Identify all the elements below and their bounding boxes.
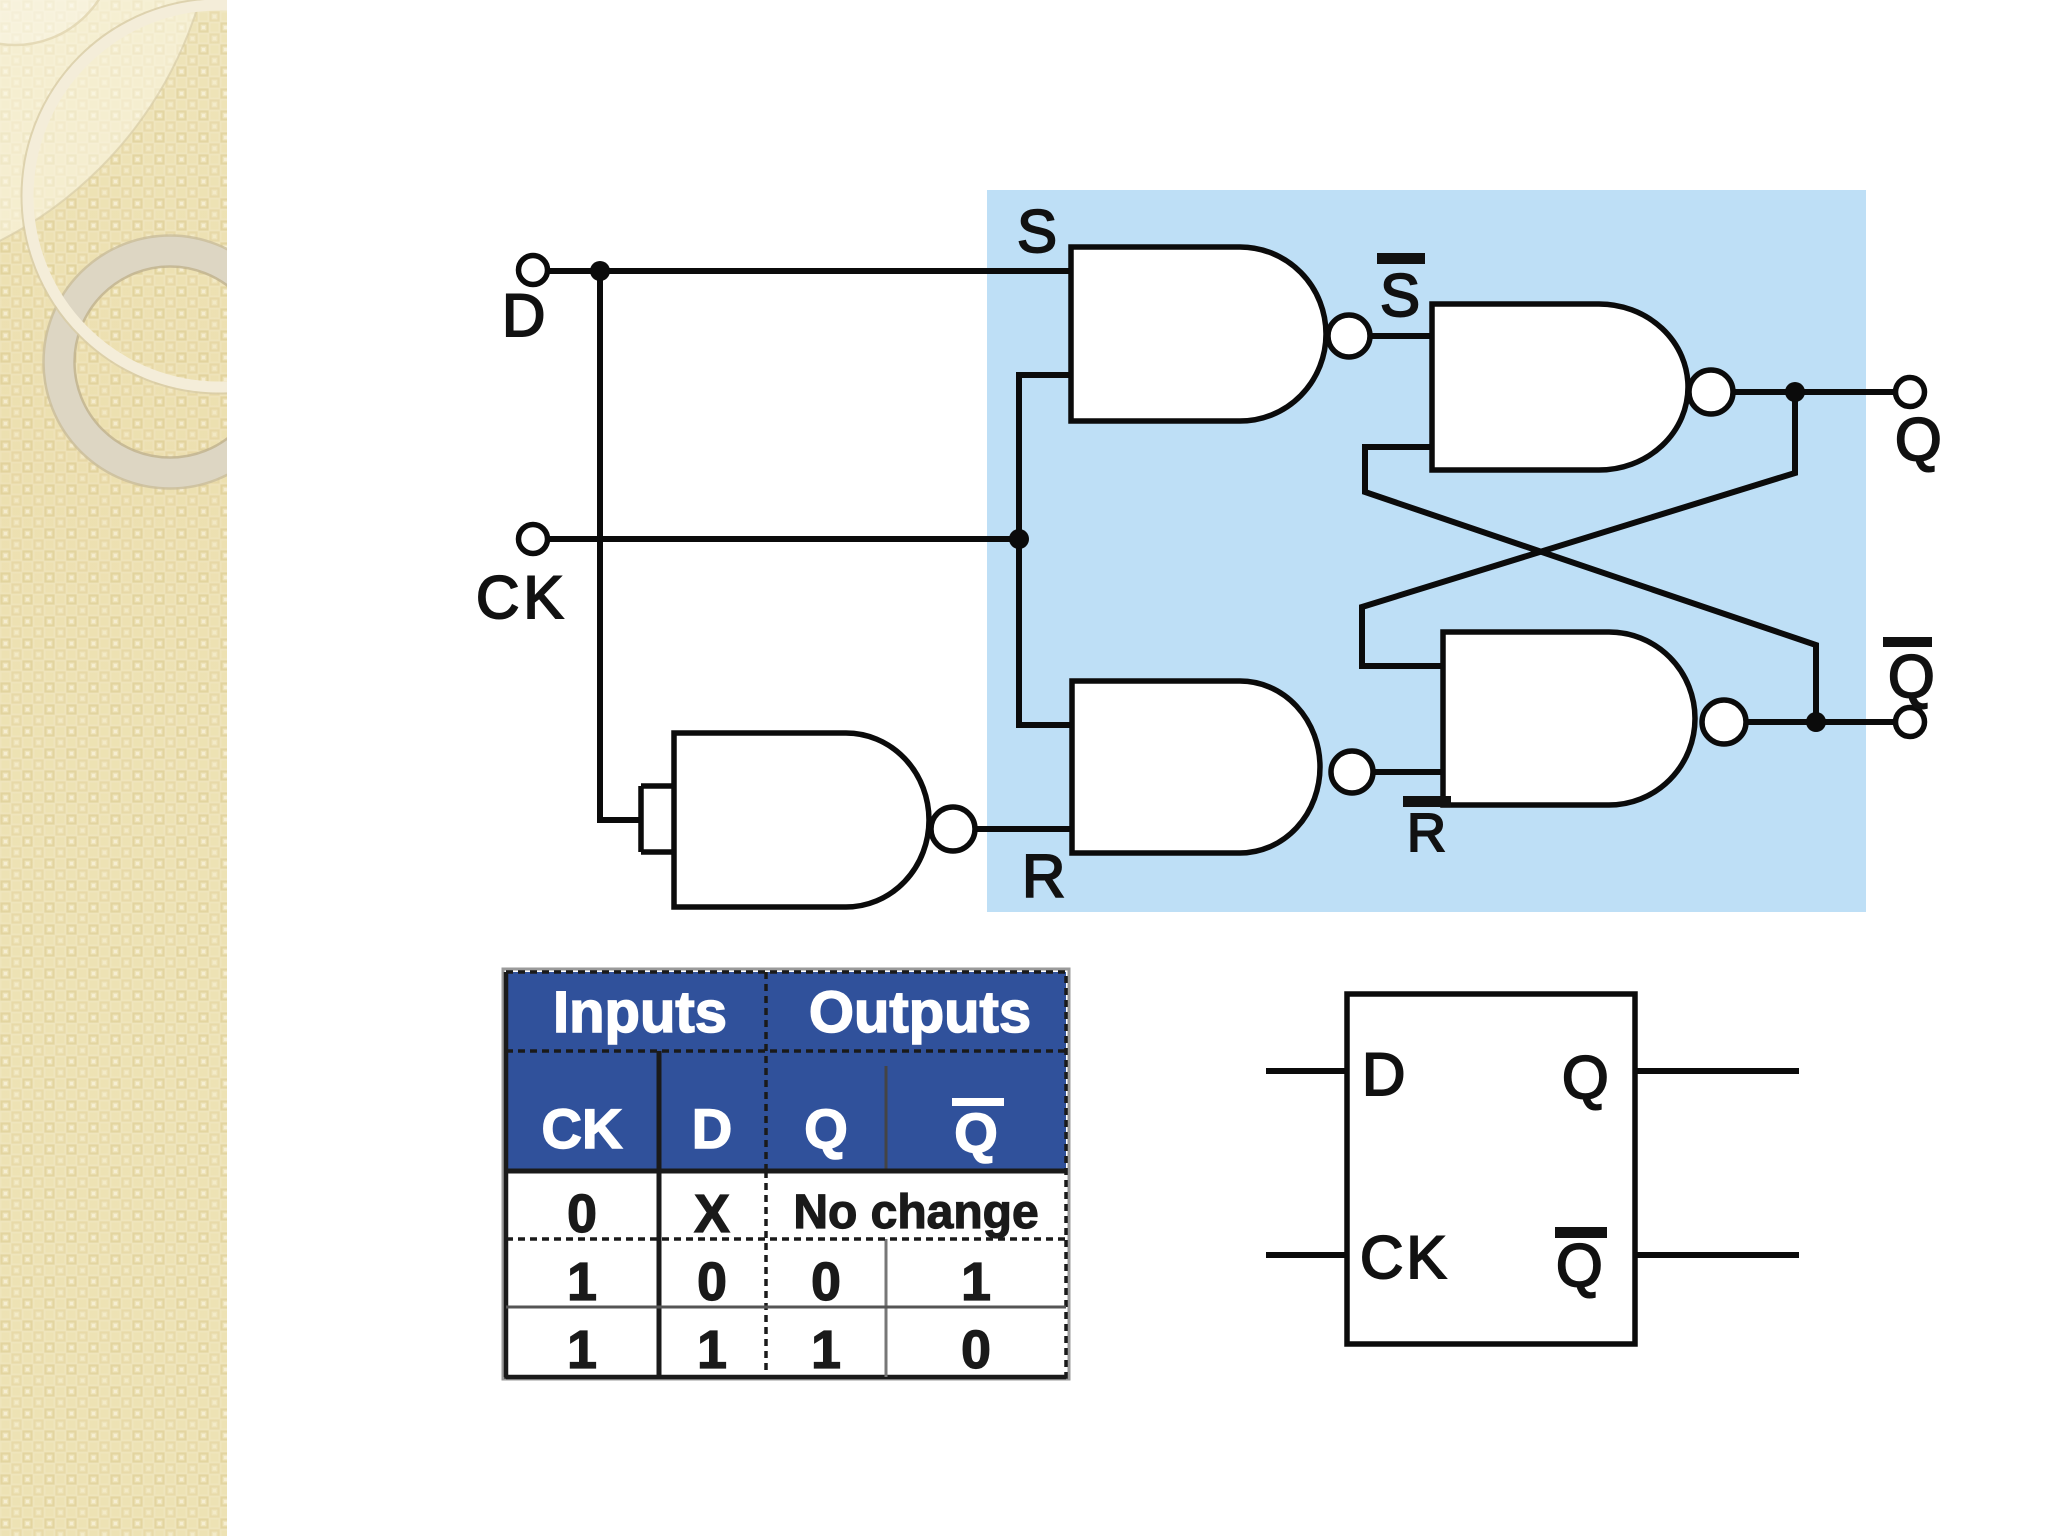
wire: D input to NAND-S top input: [547, 268, 1071, 274]
svg-text:D: D: [692, 1097, 732, 1160]
svg-text:D: D: [502, 282, 545, 349]
header cell: Inputs / Outputs band: [506, 972, 1066, 1051]
svg-text:Inputs: Inputs: [553, 980, 727, 1045]
svg-text:1: 1: [811, 1320, 841, 1380]
svg-text:R: R: [1022, 843, 1065, 910]
latch highlight background: [987, 190, 1866, 912]
svg-text:0: 0: [811, 1252, 841, 1312]
table outer shadow frame: [503, 969, 1069, 1379]
wire: Q cross-coupling to U4 top input: [1362, 392, 1795, 666]
input terminal D: [519, 256, 548, 285]
svg-text:Q: Q: [954, 1101, 998, 1164]
svg-text:CK: CK: [1360, 1224, 1449, 1291]
svg-text:1: 1: [961, 1252, 991, 1312]
svg-text:1: 1: [567, 1320, 597, 1380]
svg-text:R: R: [1407, 803, 1446, 863]
wire: CK input run: [547, 536, 1019, 542]
svg-text:1: 1: [567, 1252, 597, 1312]
U5 tied-input bracket: [641, 786, 674, 852]
junction: Q-bar node: [1806, 712, 1826, 732]
FLIP-FLOP SYMBOL: [1266, 994, 1799, 1344]
NAND gate U1 (S gate): [1071, 247, 1326, 421]
svg-text:Q: Q: [1562, 1044, 1609, 1111]
pin Q-bar lead: [1635, 1252, 1799, 1258]
TRUTH TABLE: [503, 969, 1069, 1380]
wire: inverted clock to NAND-R bottom input: [976, 826, 1072, 832]
NAND gate U2 (latch Q gate): [1432, 304, 1688, 470]
svg-text:X: X: [694, 1184, 730, 1244]
pin CK lead: [1266, 1252, 1347, 1258]
svg-text:Q: Q: [1888, 643, 1935, 710]
pin D lead: [1266, 1068, 1347, 1074]
output terminal Q-bar: [1896, 708, 1925, 737]
junction: CK node: [1009, 529, 1029, 549]
table grid lines: [506, 972, 1066, 1377]
svg-text:D: D: [1362, 1041, 1405, 1108]
svg-text:Q: Q: [804, 1097, 848, 1160]
wire: Q-bar output run: [1747, 719, 1897, 725]
svg-text:CK: CK: [476, 564, 567, 631]
svg-text:Q: Q: [1556, 1232, 1603, 1299]
wire: D vertical feed to clock inverter: [600, 271, 641, 820]
svg-text:1: 1: [697, 1320, 727, 1380]
NAND gate U4 (latch Q-bar gate): [1443, 632, 1695, 805]
wire: Q-bar cross-coupling to U2 bottom input: [1365, 447, 1816, 722]
input terminal CK: [519, 525, 548, 554]
junction: Q node: [1785, 382, 1805, 402]
svg-text:0: 0: [961, 1320, 991, 1380]
wire: R-bar (NAND-R output to latch gate U4): [1373, 769, 1443, 775]
wire: CK down to NAND-R top input: [1019, 539, 1072, 725]
table data text: [567, 1184, 1039, 1380]
D flip-flop symbol box: [1347, 994, 1635, 1344]
wire: Q output run: [1734, 389, 1897, 395]
svg-text:Outputs: Outputs: [809, 980, 1031, 1045]
svg-text:Q: Q: [1895, 406, 1942, 473]
NAND gate U3 (R gate): [1072, 681, 1320, 853]
wire: S-bar (NAND-S output to latch gate U2): [1371, 333, 1432, 339]
svg-text:0: 0: [697, 1252, 727, 1312]
svg-text:S: S: [1017, 198, 1057, 265]
output terminal Q: [1896, 378, 1925, 407]
svg-text:CK: CK: [542, 1097, 623, 1160]
svg-text:0: 0: [567, 1184, 597, 1244]
NAND gate U5 (clock inverter): [674, 733, 929, 907]
wire: CK up to NAND-S bottom input: [1019, 375, 1071, 539]
table header text: [542, 980, 1032, 1164]
CIRCUIT: [547, 271, 1897, 829]
left decorative sidebar (theme art): [0, 0, 416, 1536]
pin Q lead: [1635, 1068, 1799, 1074]
svg-text:No change: No change: [793, 1186, 1038, 1239]
svg-text:S: S: [1380, 262, 1420, 329]
junction: D node: [590, 261, 610, 281]
header cells: CK D Q Qbar band: [506, 1051, 1066, 1171]
